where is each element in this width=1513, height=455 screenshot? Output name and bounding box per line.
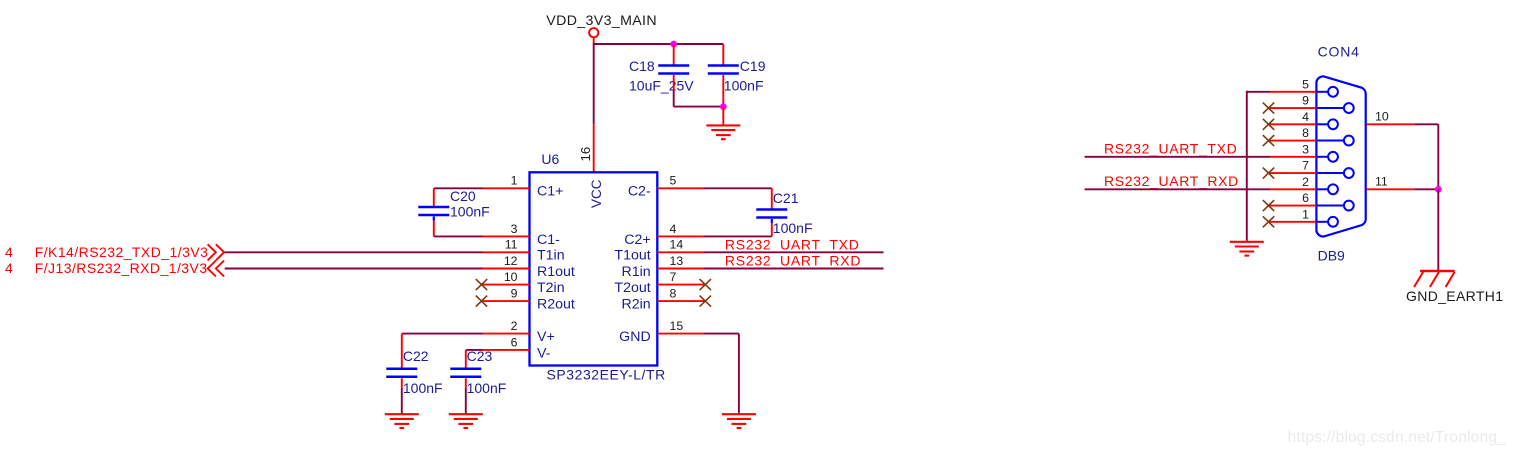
U6 refdes xyxy=(541,151,559,167)
capacitor C23 label xyxy=(467,348,507,396)
ground below pin15 xyxy=(722,414,756,428)
CON4 pin 8 circle xyxy=(1316,136,1353,146)
svg-text:T2in: T2in xyxy=(537,280,565,296)
U6 part value SP3232EEY-L/TR xyxy=(547,367,666,383)
svg-text:U6: U6 xyxy=(541,151,559,167)
svg-text:C19: C19 xyxy=(740,58,766,74)
U6 pin 11 T1in xyxy=(482,238,565,264)
wire pin10 to earth xyxy=(1415,124,1439,189)
svg-text:14: 14 xyxy=(670,238,684,252)
U6 pin 3 C1- xyxy=(482,222,561,248)
svg-text:F/K14/RS232_TXD_1/3V3: F/K14/RS232_TXD_1/3V3 xyxy=(35,244,209,260)
capacitor C19 top lead xyxy=(722,44,724,65)
svg-text:C22: C22 xyxy=(403,348,429,364)
wire pin2 to C22 xyxy=(402,333,483,335)
CON4 pin 6 circle xyxy=(1316,201,1353,211)
svg-text:RS232_UART_RXD: RS232_UART_RXD xyxy=(1104,173,1239,189)
svg-text:V-: V- xyxy=(537,345,551,361)
junction node pin11 xyxy=(1435,186,1442,193)
svg-text:CON4: CON4 xyxy=(1318,44,1360,60)
svg-text:C20: C20 xyxy=(450,188,476,204)
svg-text:4: 4 xyxy=(670,222,677,236)
CON4 pin 9 stub xyxy=(1269,94,1317,108)
CON4 pin 2 circle xyxy=(1316,184,1338,194)
DB9 part value xyxy=(1318,248,1345,264)
CON4 pin 2 stub xyxy=(1269,175,1317,189)
net RS232_UART_TXD at U6 xyxy=(725,236,860,252)
svg-text:5: 5 xyxy=(670,174,677,188)
CON4 pin 6 stub xyxy=(1269,191,1317,205)
capacitor C23 xyxy=(450,369,481,377)
U6 pin 14 T1out xyxy=(614,238,705,264)
CON4 refdes xyxy=(1318,44,1360,60)
capacitor C20 top lead xyxy=(433,188,435,206)
svg-text:SP3232EEY-L/TR: SP3232EEY-L/TR xyxy=(547,367,666,383)
capacitor C20 xyxy=(418,207,449,215)
connector CON4 DB9 body xyxy=(1316,76,1365,236)
svg-text:1: 1 xyxy=(511,174,518,188)
svg-text:6: 6 xyxy=(1302,191,1309,205)
net label GND_EARTH1 xyxy=(1406,288,1503,304)
capacitor C22 xyxy=(386,369,417,377)
wire C21 to pin4 xyxy=(704,235,772,237)
svg-text:1: 1 xyxy=(1302,207,1309,221)
U6 pin 5 C2- xyxy=(628,174,705,200)
U6 pin 1 C1+ xyxy=(482,174,564,200)
CON4 pin 7 circle xyxy=(1316,168,1353,178)
svg-text:4: 4 xyxy=(5,244,13,260)
svg-text:8: 8 xyxy=(670,287,677,301)
svg-text:100nF: 100nF xyxy=(403,380,443,396)
ground below C19 xyxy=(706,125,740,139)
power symbol VDD_3V3_MAIN xyxy=(546,13,657,44)
svg-text:15: 15 xyxy=(670,319,684,333)
capacitor C22 label xyxy=(403,348,443,396)
CON4 pin 5 stub xyxy=(1269,77,1317,91)
svg-text:9: 9 xyxy=(511,287,518,301)
wire pin6 to C23 xyxy=(466,349,483,351)
svg-text:C2-: C2- xyxy=(628,184,651,200)
svg-text:6: 6 xyxy=(511,335,518,349)
no-connect pin 7 xyxy=(700,279,711,290)
svg-text:7: 7 xyxy=(670,270,677,284)
U6 pin 15 GND xyxy=(619,319,705,345)
U6 pin 7 T2out xyxy=(614,270,705,296)
capacitor C22 bottom lead xyxy=(401,378,403,414)
capacitor C22 top lead xyxy=(401,334,403,368)
svg-text:R2out: R2out xyxy=(537,297,575,313)
net RS232_UART_RXD at CON4 xyxy=(1104,173,1239,189)
capacitor C19 xyxy=(708,66,739,74)
capacitor C18 top lead xyxy=(673,44,675,65)
svg-text:C18: C18 xyxy=(629,58,655,74)
CON4 pin 1 stub xyxy=(1269,207,1317,221)
svg-text:11: 11 xyxy=(1375,175,1388,189)
svg-text:8: 8 xyxy=(1302,126,1309,140)
U6 pin 6 V- xyxy=(482,335,551,361)
CON4 pin 4 circle xyxy=(1316,119,1338,129)
svg-text:R1out: R1out xyxy=(537,264,575,280)
svg-text:T1in: T1in xyxy=(537,248,565,264)
no-connect pin 9 xyxy=(476,296,487,307)
CON4 pin 9 circle xyxy=(1316,103,1353,113)
svg-text:100nF: 100nF xyxy=(724,78,764,94)
wire pin5 to bus xyxy=(1247,91,1270,93)
svg-text:16: 16 xyxy=(578,147,593,162)
capacitor C18 xyxy=(658,66,689,74)
svg-text:10: 10 xyxy=(504,270,518,284)
capacitor C18 bottom lead xyxy=(673,75,675,107)
svg-text:RS232_UART_TXD: RS232_UART_TXD xyxy=(1104,141,1237,157)
ground below C23 xyxy=(449,414,483,428)
capacitor C23 bottom lead xyxy=(465,378,467,414)
watermark xyxy=(1288,429,1507,446)
U6 pin 8 R2in xyxy=(622,287,706,313)
capacitor C23 top lead xyxy=(465,350,467,368)
svg-text:4: 4 xyxy=(5,260,13,276)
wire C18-C19 bottom xyxy=(674,106,724,108)
svg-text:https://blog.csdn.net/Tronlong: https://blog.csdn.net/Tronlong_ xyxy=(1288,429,1507,446)
wire pin11 to junction xyxy=(1415,188,1439,190)
capacitor C21 top lead xyxy=(771,188,773,208)
wire VDD horizontal xyxy=(594,43,724,45)
svg-text:T1out: T1out xyxy=(614,248,650,264)
net RS232_UART_RXD at U6 xyxy=(725,253,861,269)
no-connect CON4 pin 4 xyxy=(1263,119,1274,130)
wire TXD to pin3 xyxy=(1085,156,1270,158)
junction node at C19 bottom xyxy=(720,103,727,110)
CON4 pin 3 circle xyxy=(1316,152,1338,162)
wire VDD vertical to pin16 xyxy=(593,43,595,124)
CON4 pin 11 xyxy=(1367,175,1415,190)
chassis ground GND_EARTH1 xyxy=(1414,271,1455,287)
svg-text:RS232_UART_TXD: RS232_UART_TXD xyxy=(725,236,860,252)
svg-text:DB9: DB9 xyxy=(1318,248,1345,264)
U6 pin 13 R1in xyxy=(622,254,706,280)
capacitor C21 label xyxy=(773,190,813,236)
CON4 pin 10 xyxy=(1367,110,1415,125)
svg-text:RS232_UART_RXD: RS232_UART_RXD xyxy=(725,253,861,269)
svg-text:9: 9 xyxy=(1302,94,1309,108)
svg-text:3: 3 xyxy=(511,222,518,236)
CON4 pin 8 stub xyxy=(1269,126,1317,140)
wire pin1 to C20 xyxy=(434,187,483,189)
no-connect CON4 pin 7 xyxy=(1263,168,1274,179)
svg-text:11: 11 xyxy=(505,238,518,252)
svg-text:GND_EARTH1: GND_EARTH1 xyxy=(1406,288,1503,304)
wire TXD to pin11 xyxy=(225,251,483,253)
wire RXD to pin12 xyxy=(225,268,483,270)
CON4 pin 3 stub xyxy=(1269,142,1317,156)
wire R1in net xyxy=(704,268,883,270)
no-connect pin 8 xyxy=(700,296,711,307)
svg-text:C1-: C1- xyxy=(537,232,560,248)
wire pin5 to C21 xyxy=(704,187,772,189)
net RS232_UART_TXD at CON4 xyxy=(1104,141,1237,157)
CON4 pin 1 circle xyxy=(1316,217,1338,227)
capacitor C20 bottom lead xyxy=(433,217,435,237)
svg-text:C21: C21 xyxy=(773,190,799,206)
no-connect CON4 pin 6 xyxy=(1263,200,1274,211)
svg-text:VCC: VCC xyxy=(589,179,604,208)
svg-text:100nF: 100nF xyxy=(450,203,490,219)
U6 pin 2 V+ xyxy=(482,319,555,345)
ground below C22 xyxy=(385,414,419,428)
svg-text:13: 13 xyxy=(670,254,684,268)
capacitor C19 bottom lead xyxy=(722,75,724,107)
CON4 pin 5 circle xyxy=(1316,87,1338,97)
svg-text:GND: GND xyxy=(619,329,651,345)
svg-text:3: 3 xyxy=(1302,142,1309,156)
svg-text:2: 2 xyxy=(1302,175,1309,189)
junction node at C18 xyxy=(670,41,677,48)
svg-text:12: 12 xyxy=(504,254,518,268)
wire pin15 to ground xyxy=(704,334,739,415)
wire bus vertical xyxy=(1246,91,1248,241)
svg-text:C23: C23 xyxy=(467,348,493,364)
wire C19 to ground xyxy=(722,107,724,125)
svg-text:10: 10 xyxy=(1375,110,1389,124)
no-connect CON4 pin 9 xyxy=(1263,103,1274,114)
svg-text:R1in: R1in xyxy=(622,264,651,280)
svg-text:10uF_25V: 10uF_25V xyxy=(629,78,694,94)
svg-text:R2in: R2in xyxy=(622,297,651,313)
CON4 pin 4 stub xyxy=(1269,110,1317,124)
svg-text:T2out: T2out xyxy=(614,280,650,296)
U6 VCC pin name xyxy=(589,179,604,208)
wire RXD to pin2 xyxy=(1085,188,1270,190)
svg-text:C1+: C1+ xyxy=(537,184,563,200)
svg-text:F/J13/RS232_RXD_1/3V3: F/J13/RS232_RXD_1/3V3 xyxy=(35,260,208,276)
svg-text:4: 4 xyxy=(1302,110,1309,124)
capacitor C19 label xyxy=(724,58,766,93)
capacitor C21 bottom lead xyxy=(771,219,773,236)
svg-text:100nF: 100nF xyxy=(467,380,507,396)
off-page ref F/K14/RS232_TXD_1/3V3 xyxy=(5,244,224,260)
no-connect CON4 pin 1 xyxy=(1263,216,1274,227)
pin 16 number xyxy=(578,147,593,162)
U6 pin 10 T2in xyxy=(482,270,565,296)
CON4 pin 7 stub xyxy=(1269,159,1317,173)
pin 16 stub xyxy=(593,124,595,172)
wire to earth ground xyxy=(1437,189,1439,270)
svg-text:5: 5 xyxy=(1302,77,1309,91)
svg-text:V+: V+ xyxy=(537,329,555,345)
ground below bus xyxy=(1230,242,1264,256)
no-connect pin 10 xyxy=(476,279,487,290)
no-connect CON4 pin 8 xyxy=(1263,135,1274,146)
off-page ref F/J13/RS232_RXD_1/3V3 xyxy=(5,260,224,276)
capacitor C21 xyxy=(756,210,787,218)
svg-text:VDD_3V3_MAIN: VDD_3V3_MAIN xyxy=(546,13,657,29)
capacitor C18 label xyxy=(629,58,694,93)
wire T1out net xyxy=(704,251,883,253)
svg-text:100nF: 100nF xyxy=(773,220,813,236)
U6 pin 12 R1out xyxy=(482,254,575,280)
U6 pin 4 C2+ xyxy=(624,222,705,248)
wire C20 to pin3 xyxy=(434,235,483,237)
U6 pin 9 R2out xyxy=(482,287,575,313)
capacitor C20 label xyxy=(450,188,490,219)
svg-text:C2+: C2+ xyxy=(624,232,650,248)
svg-text:7: 7 xyxy=(1302,159,1309,173)
op-amp U6 body xyxy=(530,172,658,365)
svg-text:2: 2 xyxy=(511,319,518,333)
